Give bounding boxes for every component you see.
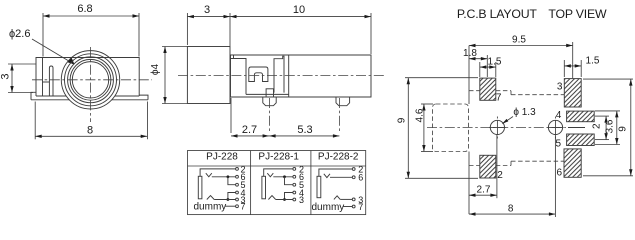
- front body outline: [36, 58, 139, 97]
- svg-text:10: 10: [293, 4, 305, 16]
- pad 3: [557, 79, 581, 107]
- wire junction to pin 5: [228, 177, 236, 185]
- wire sleeve to pin 2: [264, 169, 293, 176]
- svg-text:2: 2: [497, 170, 503, 181]
- pin 5: [293, 180, 304, 190]
- dimension 1.5 (pad 3): [564, 56, 600, 78]
- tip switch v (PJ-228): [206, 173, 212, 177]
- wire peak to pin 3: [276, 199, 293, 201]
- pin 7: [352, 202, 363, 212]
- junction dot 4-3: [227, 198, 230, 201]
- pin 2: [352, 164, 363, 174]
- tip contact staple: [249, 67, 268, 82]
- svg-text:3: 3: [557, 82, 563, 93]
- svg-text:5.3: 5.3: [297, 124, 312, 136]
- dimension 9.5: [469, 35, 573, 79]
- dimension 6.8: [43, 3, 139, 57]
- svg-text:3: 3: [204, 4, 210, 16]
- leg 1 collar: [263, 97, 276, 106]
- barrel dashed outline: [433, 104, 469, 152]
- dimension 2.7 (pcb): [469, 135, 497, 198]
- tip switch v (PJ-228-1): [267, 173, 273, 177]
- barrel circle outer: [61, 51, 119, 109]
- interior separator: [288, 55, 290, 97]
- wire sleeve to pin 2: [200, 169, 236, 176]
- pin 6: [352, 173, 363, 183]
- dimension 8 (pcb): [469, 135, 555, 217]
- pin 2: [236, 164, 246, 174]
- svg-text:1.5: 1.5: [488, 57, 502, 68]
- svg-text:1.8: 1.8: [463, 48, 477, 59]
- dummy label and wire to pin 7: [194, 202, 236, 213]
- barrel circle 2: [65, 54, 117, 106]
- wire junction to pin 5: [285, 177, 293, 185]
- svg-text:7: 7: [241, 202, 246, 212]
- svg-text:9: 9: [618, 126, 629, 132]
- pin 3: [352, 195, 363, 205]
- svg-text:4.6: 4.6: [415, 108, 426, 122]
- svg-text:3.6: 3.6: [605, 119, 616, 133]
- svg-text:PJ-228-1: PJ-228-1: [258, 152, 299, 163]
- sleeve contact bar (PJ-228-1): [262, 176, 266, 199]
- pad 2: [480, 155, 503, 181]
- table frame: [188, 151, 366, 215]
- dimension 3 (front view height): [0, 64, 36, 93]
- svg-text:1.5: 1.5: [586, 56, 600, 67]
- barrel ring outer: [68, 57, 114, 103]
- wire sleeve to pin 2: [319, 169, 352, 176]
- wire peak to pin 3: [214, 199, 235, 201]
- front left foot: [31, 92, 70, 100]
- body (side): [231, 55, 372, 97]
- svg-text:4: 4: [556, 110, 562, 121]
- pad 7: [480, 78, 502, 103]
- tip switch v (PJ-228-2): [324, 174, 330, 178]
- interior shield seam: [231, 55, 247, 94]
- pin 2: [293, 164, 304, 174]
- body outline top dashed: [469, 91, 564, 95]
- interior shelf: [246, 93, 289, 95]
- svg-text:9.5: 9.5: [512, 35, 526, 46]
- svg-text:ϕ2.6: ϕ2.6: [9, 28, 30, 40]
- ring switch peak (PJ-228): [207, 196, 214, 200]
- wire v to pin 6: [212, 176, 236, 178]
- front right foot: [112, 95, 148, 100]
- wire peak to pin 3: [340, 198, 352, 200]
- hole phi2.6 circle: [72, 62, 108, 98]
- junction dot 4-3: [283, 198, 286, 201]
- body left edge / extension line lower: [468, 152, 470, 215]
- side centerline: [178, 75, 384, 77]
- pcb centerline: [427, 127, 566, 129]
- pin 6: [293, 172, 304, 182]
- svg-text:2: 2: [592, 123, 603, 129]
- svg-text:TOP VIEW: TOP VIEW: [548, 7, 607, 21]
- svg-text:3: 3: [0, 74, 11, 80]
- junction dot 6-5: [283, 175, 286, 178]
- svg-text:6: 6: [358, 173, 363, 183]
- svg-text:dummy: dummy: [194, 202, 227, 213]
- front slot connector: [43, 81, 50, 83]
- ring switch peak (PJ-228-1): [268, 196, 275, 200]
- interior contact block: [274, 56, 284, 92]
- sleeve contact bar (PJ-228): [198, 176, 202, 199]
- svg-text:2.7: 2.7: [477, 185, 491, 196]
- pin 5: [236, 180, 246, 190]
- dimension 2 (pads 4-5 pitch): [592, 116, 610, 140]
- svg-text:7: 7: [358, 202, 363, 212]
- dimensions 3 and 10: [187, 4, 371, 54]
- wire v to pin 6: [330, 176, 352, 178]
- front inner seam line: [42, 58, 44, 97]
- dimension 8 (front bottom): [35, 102, 147, 140]
- label phi1.3 with leader: [502, 107, 536, 124]
- svg-text:P.C.B LAYOUT: P.C.B LAYOUT: [457, 7, 538, 21]
- pin 3: [293, 195, 304, 205]
- front centerlines: [32, 47, 152, 122]
- leg 2 collar: [336, 97, 350, 106]
- dimension 4.6: [415, 104, 434, 152]
- dimension 9 (right): [583, 79, 633, 176]
- leg 1 upper: [266, 89, 273, 97]
- svg-text:ϕ4: ϕ4: [150, 63, 161, 75]
- ring switch peak (PJ-228-2): [334, 196, 340, 200]
- dimension 3.6: [595, 111, 620, 145]
- dimension 1.8: [463, 48, 487, 77]
- wire pin 4 to junction: [228, 193, 236, 200]
- pin 6: [236, 172, 246, 182]
- dimensions 2.7 and 5.3: [231, 124, 339, 138]
- pad 6: [557, 149, 582, 179]
- junction dot 6-5: [227, 175, 230, 178]
- dimension 1.5 (pad 7): [480, 57, 502, 78]
- pin 4: [293, 188, 304, 198]
- leg centerlines: [231, 98, 339, 133]
- svg-text:dummy: dummy: [312, 202, 345, 213]
- pad 4: [556, 110, 594, 122]
- dummy label and wire to pin 7: [312, 202, 353, 213]
- svg-text:8: 8: [508, 204, 514, 215]
- pin 7: [236, 202, 246, 212]
- barrel (side): [187, 47, 230, 104]
- svg-text:7: 7: [496, 93, 502, 104]
- hole A phi1.3: [489, 117, 505, 139]
- wire pin 4 to junction: [285, 193, 293, 200]
- svg-text:6.8: 6.8: [77, 3, 92, 15]
- svg-text:3: 3: [299, 195, 304, 205]
- wire v to pin 6: [273, 176, 293, 178]
- svg-text:ϕ 1.3: ϕ 1.3: [513, 107, 536, 118]
- hole B: [547, 117, 563, 139]
- pad 5: [556, 134, 595, 149]
- svg-text:9: 9: [397, 117, 408, 123]
- svg-text:2.7: 2.7: [242, 124, 257, 136]
- label phi2.6 with leader: [9, 28, 75, 65]
- svg-text:5: 5: [556, 138, 562, 149]
- barrel ring inner: [70, 59, 111, 100]
- titles: [457, 7, 607, 21]
- body left edge / extension line upper: [468, 46, 470, 105]
- slot between pads 4 and 5: [568, 127, 585, 129]
- pin 3: [236, 195, 246, 205]
- svg-text:8: 8: [87, 125, 93, 137]
- svg-text:PJ-228-2: PJ-228-2: [318, 152, 359, 163]
- body outline bottom dashed: [469, 161, 564, 165]
- front slot (spring contact): [49, 66, 53, 96]
- sleeve contact bar (PJ-228-2): [317, 176, 321, 197]
- pin 4: [236, 188, 246, 198]
- svg-text:PJ-228: PJ-228: [206, 152, 238, 163]
- dimension phi4: [150, 47, 187, 104]
- svg-text:6: 6: [557, 168, 563, 179]
- dimension 9 (left): [397, 78, 479, 179]
